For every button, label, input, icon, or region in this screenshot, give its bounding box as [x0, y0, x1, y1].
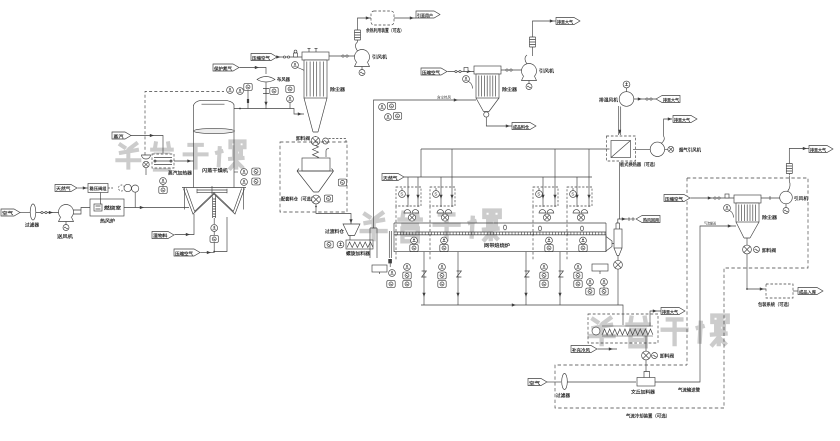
conveyor vent	[650, 309, 661, 326]
hot air furnace 热风炉	[90, 199, 124, 225]
rotary valve 3 卸料阀	[743, 238, 777, 254]
furnace right end cap	[606, 223, 614, 252]
svg-text:空气: 空气	[2, 210, 14, 217]
furnace internal instruments	[410, 237, 587, 251]
burner valve train 3	[533, 177, 558, 207]
svg-text:气流输送管: 气流输送管	[678, 387, 700, 394]
filter F-left	[25, 204, 39, 229]
bag filter 2 除尘器	[474, 66, 517, 112]
air drop pipes	[416, 149, 590, 207]
svg-text:板式换热器（可选）: 板式换热器（可选）	[620, 161, 658, 168]
fan2 exhaust coil	[530, 19, 557, 56]
wire to packing	[746, 254, 766, 291]
screw conveyor dashed box	[588, 314, 658, 343]
callout: compressed air A4	[421, 68, 447, 76]
callout: natural gas A8	[55, 185, 77, 193]
watermark 3	[588, 316, 728, 347]
hopper level instrument	[338, 179, 346, 186]
PHE risers	[619, 106, 621, 219]
svg-text:引风机: 引风机	[794, 195, 808, 202]
callout: vent A15	[673, 116, 697, 124]
callout: steam A7	[112, 132, 131, 140]
trap gauge pair	[159, 178, 167, 194]
filter2 discharge	[484, 112, 512, 128]
steam pipe	[131, 134, 163, 153]
svg-text:过滤器: 过滤器	[25, 222, 39, 229]
svg-text:除尘器: 除尘器	[762, 214, 777, 221]
svg-text:压缩空气: 压缩空气	[665, 195, 684, 202]
burner valve train 2	[430, 177, 455, 207]
svg-text:气流输送: 气流输送	[704, 221, 716, 226]
conveyor belt with ticks	[394, 232, 606, 235]
dryer top instruments	[227, 84, 279, 109]
wire air to filter	[547, 381, 561, 383]
svg-text:成品料仓: 成品料仓	[513, 123, 530, 130]
screw conveyor	[592, 326, 653, 336]
svg-text:送风机: 送风机	[56, 233, 74, 240]
spring hangers Z	[422, 271, 564, 277]
dryer side instruments right	[234, 168, 260, 185]
blower fan 送风机	[56, 205, 74, 241]
instruments near baghouse cone	[286, 86, 294, 109]
callout: natural gas A12	[382, 174, 404, 182]
flexible connector	[313, 146, 319, 159]
svg-text:网带焙烧炉: 网带焙烧炉	[484, 242, 510, 249]
packing system dashed box	[758, 284, 793, 308]
pulse blowback gauge	[292, 62, 304, 71]
burner 1	[404, 210, 419, 222]
cyclone exhaust wire	[618, 217, 634, 223]
under-furnace instruments row	[403, 264, 582, 288]
svg-text:排至大气: 排至大气	[663, 96, 680, 103]
air manifold line	[421, 148, 610, 150]
plate heat exchanger (dashed)	[607, 136, 659, 168]
wire: filter3 to fan6	[761, 196, 780, 200]
callout: air inlet A9	[1, 209, 20, 217]
right subsystem dashed boundary (L-shaped)	[687, 178, 808, 408]
steam heater (dashed)	[152, 154, 192, 177]
wire to A18	[793, 290, 798, 292]
dehumidify fan 排湿风机	[599, 81, 634, 106]
wire with valve dots	[36, 211, 66, 214]
svg-text:空气: 空气	[529, 379, 541, 386]
svg-text:排至大气: 排至大气	[674, 116, 691, 123]
svg-text:含尘热风: 含尘热风	[437, 95, 451, 100]
burner 3	[539, 210, 554, 222]
discharge chute with flex	[213, 196, 216, 219]
watermark 1	[115, 141, 244, 169]
hopper bin	[297, 149, 334, 192]
svg-text:卸料阀: 卸料阀	[762, 247, 776, 254]
callout: vent A19	[661, 308, 685, 316]
pneumatic conveying pipe	[655, 221, 736, 394]
callout: hot air reuse A16	[636, 216, 660, 224]
svg-text:闪蒸干燥机: 闪蒸干燥机	[202, 167, 228, 174]
svg-text:排湿风机: 排湿风机	[599, 97, 618, 104]
wire: filter1 to fan1	[329, 55, 362, 57]
waste heat recovery box (dashed)	[365, 11, 404, 34]
cooling air filter	[556, 374, 570, 400]
callout: vent A17	[656, 96, 680, 104]
fan3 outlet	[634, 97, 656, 100]
svg-text:保护氮气: 保护氮气	[213, 65, 233, 72]
rotary valve 2	[281, 195, 333, 204]
blowback gauge filter3	[724, 205, 734, 218]
cyclone rotary valve	[614, 256, 623, 306]
gas train	[78, 184, 139, 208]
furnace hood top	[394, 223, 606, 235]
flue gas fan 烟气引风机	[633, 142, 701, 156]
pulse air line	[276, 50, 302, 59]
svg-text:螺旋加料器: 螺旋加料器	[346, 250, 370, 257]
pulse line to filter2	[448, 68, 475, 74]
induced draft fan 1 引风机	[355, 42, 388, 76]
svg-text:稳压阀组: 稳压阀组	[90, 185, 108, 192]
svg-text:蒸汽加热器: 蒸汽加热器	[168, 170, 192, 177]
discharge valve under dryer	[210, 217, 227, 252]
right-end control cluster	[586, 264, 608, 295]
rotary valve under filter1 卸料阀	[296, 135, 346, 145]
wire: heater to dryer	[174, 159, 194, 162]
transfer bin 过渡料仓	[325, 224, 360, 240]
svg-text:余热利用装置（可选）: 余热利用装置（可选）	[365, 27, 404, 34]
svg-text:引风机: 引风机	[539, 68, 554, 75]
silencer coil	[355, 16, 373, 42]
burner 4	[573, 210, 588, 222]
svg-text:除尘器: 除尘器	[330, 86, 345, 93]
wire to A3	[394, 16, 416, 19]
collection line	[421, 303, 623, 325]
svg-text:热风炉: 热风炉	[100, 218, 115, 225]
induced draft fan 2	[522, 55, 555, 90]
callout: product storage A18	[798, 288, 823, 296]
svg-text:卸料阀: 卸料阀	[660, 353, 674, 360]
venturi feeder 文丘加料器	[567, 372, 655, 396]
gas manifold line	[404, 176, 592, 178]
callout: vent A14	[809, 146, 833, 154]
svg-text:引至用户: 引至用户	[417, 12, 433, 19]
callout: air A21	[528, 379, 547, 387]
watermark 2	[360, 211, 500, 242]
svg-text:引风机: 引风机	[372, 54, 387, 61]
wire: blower to furnace	[74, 208, 91, 215]
callout: product out A6	[512, 123, 536, 131]
furnace discharge drops	[422, 252, 561, 305]
svg-text:排至大气: 排至大气	[810, 146, 827, 153]
induced draft fan 6	[780, 181, 809, 214]
callout: nitrogen A2	[213, 64, 239, 72]
svg-text:湿物料: 湿物料	[153, 232, 168, 239]
callout: compressed air A1	[251, 54, 277, 62]
callout: compressed air A13	[664, 195, 690, 203]
svg-text:天然气: 天然气	[56, 185, 71, 192]
svg-text:压缩空气: 压缩空气	[175, 250, 194, 257]
svg-text:配套料仓（可选）: 配套料仓（可选）	[281, 196, 315, 203]
svg-text:蒸汽: 蒸汽	[114, 133, 125, 140]
riser instruments	[379, 103, 402, 121]
wire: furnace to dryer	[124, 206, 189, 209]
svg-text:压缩空气: 压缩空气	[252, 54, 271, 61]
callout: wet material A10	[152, 232, 174, 240]
pneumatic cooling dashed box 气流冷却装置	[555, 365, 724, 420]
callout: A3 引至用户	[416, 11, 440, 19]
callout: cooling air A20	[571, 346, 597, 354]
furnace section dashed dividers	[396, 206, 567, 260]
callout: vent A5	[556, 18, 580, 26]
dryer outlet duct to baghouse	[234, 109, 304, 115]
flash dryer vessel 闪蒸干燥机	[182, 100, 246, 214]
wire A11	[201, 251, 215, 254]
left-end control cluster	[372, 265, 395, 287]
burner valve train 1	[396, 177, 421, 207]
callout: compressed air A11	[174, 249, 200, 257]
svg-text:压缩空气: 压缩空气	[422, 69, 441, 76]
svg-text:成品入库: 成品入库	[799, 288, 817, 295]
probe pipe with valve at furnace left	[388, 231, 392, 267]
wire: air to filter	[20, 212, 30, 214]
cyclone separator	[614, 223, 622, 256]
fan5 outlet	[661, 117, 672, 143]
svg-text:过渡料仓: 过渡料仓	[325, 228, 344, 235]
wire: hopper discharge to transfer bin	[315, 204, 353, 224]
wire wet material feed	[175, 214, 195, 236]
fan6 exhaust coil	[786, 147, 809, 181]
svg-text:包装系统（可选）: 包装系统（可选）	[758, 301, 792, 308]
svg-text:气流冷却装置（可选）: 气流冷却装置（可选）	[626, 413, 670, 420]
svg-text:热风回用: 热风回用	[643, 216, 659, 223]
bag filter 1 除尘器	[302, 49, 345, 133]
wire: filter2 to fan2	[501, 69, 529, 71]
burner valve train 4	[567, 177, 592, 207]
manifold riser	[420, 149, 422, 177]
conveyor discharge + rotary valve 4	[642, 336, 675, 372]
svg-text:燃烧室: 燃烧室	[104, 205, 121, 212]
screw feeder drive instruments	[325, 241, 344, 248]
svg-text:除尘器: 除尘器	[502, 86, 517, 93]
svg-text:文丘加料器: 文丘加料器	[631, 389, 655, 396]
wire A20	[598, 347, 618, 350]
exhaust duct riser to bag filter 2	[374, 95, 477, 229]
svg-text:补充冷风: 补充冷风	[571, 346, 591, 353]
belt furnace body 网带焙烧炉	[394, 235, 606, 252]
svg-text:天然气: 天然气	[383, 174, 398, 181]
svg-text:烟气引风机: 烟气引风机	[679, 146, 701, 153]
optional hopper package dashed box	[280, 142, 347, 212]
blowback gauge filter2	[463, 76, 473, 89]
svg-text:排至大气: 排至大气	[557, 18, 574, 25]
nitrogen pipe + distributor	[240, 66, 291, 109]
pulse line filter3	[691, 194, 735, 200]
nozzle drips on furnace top	[504, 225, 584, 231]
screw feeder 螺旋加料器	[346, 240, 373, 257]
svg-text:过滤器: 过滤器	[556, 392, 570, 399]
steam trap group	[142, 155, 151, 175]
svg-text:卸料阀: 卸料阀	[296, 135, 310, 142]
svg-text:布风器: 布风器	[277, 76, 290, 83]
bag filter 3 除尘器	[734, 195, 777, 238]
burner 2	[437, 210, 452, 222]
svg-text:排至大气: 排至大气	[662, 308, 679, 315]
furnace inlet riser duct	[370, 228, 377, 258]
insulation dashed boundary	[145, 92, 224, 156]
